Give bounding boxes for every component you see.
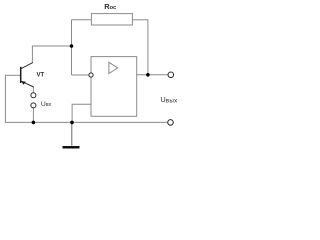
wire inverting input vertical — [71, 46, 73, 76]
wire inverting input horizontal — [72, 74, 89, 76]
wire ground stem — [71, 122, 73, 145]
transistor VT — [21, 63, 34, 87]
junction collector node — [70, 44, 74, 48]
resistor Roc — [91, 14, 132, 25]
wire up to Roc — [71, 20, 73, 46]
wire down from Roc to output node — [147, 19, 149, 75]
wire Roc left — [72, 19, 92, 21]
svg-text:Rос: Rос — [104, 2, 117, 11]
inverting input bubble — [89, 73, 93, 77]
wire ground bus — [5, 121, 168, 123]
ground — [63, 146, 80, 149]
output terminal upper — [168, 72, 174, 78]
junction ground-bus node — [70, 121, 74, 125]
input terminal upper — [31, 93, 36, 98]
svg-text:VT: VT — [37, 73, 45, 79]
wire left rail — [4, 75, 6, 123]
junction output node — [146, 73, 150, 77]
wire base to left rail — [5, 74, 20, 76]
wire output — [137, 74, 168, 76]
input terminal lower — [31, 103, 36, 108]
wire noninverting input horizontal — [72, 103, 91, 105]
wire collector vertical — [31, 46, 33, 63]
wire emitter vertical — [32, 87, 34, 93]
junction input-bus node — [32, 121, 36, 125]
wire noninverting input vertical — [71, 104, 73, 123]
svg-text:Uвых: Uвых — [160, 95, 178, 104]
op-amp — [91, 57, 137, 117]
wire collector horizontal — [32, 45, 72, 47]
svg-text:Uвх: Uвх — [41, 101, 52, 108]
wire Roc right — [132, 19, 148, 21]
output terminal lower — [168, 120, 174, 126]
wire input lower terminal to bus — [32, 108, 34, 123]
